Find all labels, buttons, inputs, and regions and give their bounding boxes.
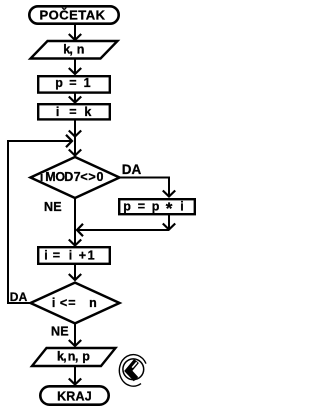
svg-text:iMOD7<>0: iMOD7<>0 <box>40 170 104 184</box>
svg-text:p=1: p=1 <box>55 76 90 90</box>
svg-text:DA: DA <box>10 290 28 304</box>
svg-text:DA: DA <box>122 162 142 177</box>
svg-text:k,n,p: k,n,p <box>57 349 90 363</box>
svg-text:i=i+1: i=i+1 <box>44 249 94 263</box>
svg-text:POČETAK: POČETAK <box>39 7 105 22</box>
svg-text:KRAJ: KRAJ <box>57 390 92 404</box>
svg-text:NE: NE <box>51 324 69 338</box>
svg-text:NE: NE <box>44 200 62 214</box>
